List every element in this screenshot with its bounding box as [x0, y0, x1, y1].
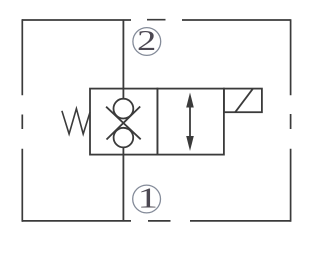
cartridge boundary bottom dashed edge: [22, 220, 291, 222]
solenoid diagonal stroke: [235, 89, 253, 112]
flow arrow top head: [186, 93, 194, 108]
port circle 1: [133, 185, 161, 213]
lower poppet ball: [114, 128, 134, 148]
wire port 2 to valve: [122, 20, 124, 100]
valve body left position box: [90, 89, 157, 155]
wire valve to port 1: [122, 147, 124, 222]
spring: [62, 109, 90, 134]
svg-text:1: 1: [138, 183, 158, 214]
flow arrow bottom head: [186, 136, 194, 151]
cartridge boundary left dashed edge: [21, 19, 23, 222]
upper poppet ball: [114, 99, 134, 119]
port circle 2: [133, 28, 161, 56]
svg-text:2: 2: [137, 26, 156, 57]
poppet seat cross: [106, 107, 141, 140]
valve body right position box: [157, 89, 224, 155]
cartridge boundary right dashed edge: [290, 19, 292, 222]
flow arrow shaft: [189, 101, 191, 142]
cartridge boundary top dashed edge: [22, 19, 291, 21]
solenoid coil box: [224, 89, 262, 113]
